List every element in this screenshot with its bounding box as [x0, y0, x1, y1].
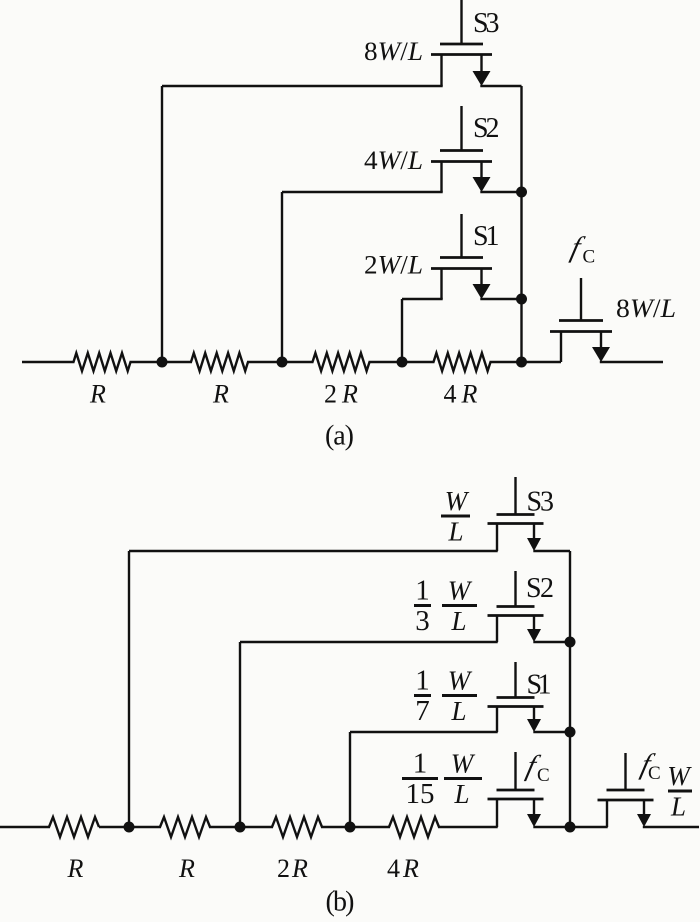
node S1-drain (a) [516, 294, 527, 305]
node S1-drain (b) [565, 727, 576, 738]
label fC (a) [568, 232, 595, 268]
wire S2 source (b) [240, 642, 498, 827]
svg-text:S2: S2 [473, 113, 500, 144]
resistor R1 (b) [49, 817, 99, 837]
label fC (b4) [523, 750, 549, 786]
wire S3 drain to bus (a) [480, 85, 521, 87]
svg-text:L: L [447, 517, 463, 547]
svg-text:1: 1 [413, 748, 428, 780]
svg-text:W: W [448, 576, 473, 606]
wire S1 drain to bus (a) [480, 298, 521, 300]
wire S2 drain to bus (a) [480, 191, 521, 193]
svg-text:C: C [537, 765, 550, 786]
svg-text:W: W [667, 761, 692, 791]
node ladder x570 (b) [565, 822, 576, 833]
wire S3 drain to bus (b) [533, 550, 570, 552]
svg-text:S3: S3 [527, 487, 555, 518]
label W/L (b S1) [442, 666, 477, 727]
wire S2 drain to bus (b) [533, 641, 570, 643]
svg-text:S2: S2 [526, 573, 554, 604]
svg-text:W: W [448, 666, 473, 696]
svg-text:L: L [453, 779, 469, 809]
svg-text:(a): (a) [325, 421, 354, 452]
node ladder x240 (b) [235, 822, 246, 833]
svg-text:2R: 2R [324, 380, 358, 409]
node ladder x521.5 (a) [516, 357, 527, 368]
transistor S3 (b) [488, 477, 544, 551]
svg-text:4R: 4R [387, 854, 419, 883]
label 1/15 (b T4) [402, 748, 438, 811]
node S2-drain (b) [565, 637, 576, 648]
transistor fC (a) [550, 278, 612, 362]
transistor S1 (b) [488, 662, 544, 732]
svg-text:8W/L: 8W/L [616, 294, 676, 323]
label W/L (b S3) [441, 486, 470, 547]
wire S1 source (b) [350, 732, 498, 827]
transistor S2 (b) [488, 571, 544, 642]
svg-text:2R: 2R [277, 854, 308, 883]
bus wire (b) [569, 551, 571, 827]
transistor S1 [431, 214, 492, 299]
output wire (b) [643, 826, 699, 828]
svg-text:(b): (b) [326, 887, 355, 918]
wire S3 source (a) [162, 86, 443, 362]
label W/L (b S2) [442, 576, 477, 637]
ladder wire (a) [22, 361, 561, 363]
wire S2 source (a) [282, 192, 443, 362]
svg-text:4R: 4R [444, 380, 478, 409]
svg-text:L: L [450, 696, 466, 726]
label 1/3 (b S2) [414, 575, 431, 638]
resistor R1 (a) [74, 353, 131, 371]
node ladder x282 (a) [277, 357, 288, 368]
svg-text:W: W [451, 749, 476, 779]
svg-text:3: 3 [415, 605, 430, 637]
resistor R2 (a) [191, 353, 248, 371]
svg-text:L: L [450, 606, 466, 636]
svg-text:S1: S1 [527, 670, 552, 701]
label W/L (b right) [667, 761, 692, 822]
svg-text:S1: S1 [473, 221, 500, 252]
svg-text:S3: S3 [473, 8, 500, 39]
label fC (b right) [638, 749, 661, 784]
transistor fC (b) [488, 752, 544, 827]
svg-text:8W/L: 8W/L [364, 37, 423, 66]
transistor S2 [431, 106, 492, 192]
svg-text:4W/L: 4W/L [364, 146, 423, 175]
svg-text:15: 15 [406, 778, 435, 810]
ladder wire (b) [0, 826, 608, 828]
svg-text:W: W [445, 486, 470, 516]
svg-text:1: 1 [415, 665, 430, 697]
resistor 2R (a) [313, 353, 370, 371]
svg-text:C: C [583, 247, 596, 268]
resistor 4R (a) [434, 353, 491, 371]
svg-text:R: R [178, 854, 195, 883]
svg-text:R: R [212, 380, 229, 409]
bus wire (a) [520, 86, 522, 362]
svg-text:1: 1 [415, 575, 430, 607]
wire S3 source (b) [129, 551, 498, 827]
resistor 2R (b) [272, 817, 322, 837]
node S2-drain (a) [516, 187, 527, 198]
node ladder x129 (b) [124, 822, 135, 833]
svg-text:L: L [670, 792, 686, 822]
label 1/7 (b S1) [414, 665, 431, 728]
svg-text:7: 7 [415, 695, 430, 727]
transistor S3 [431, 0, 492, 86]
transistor fC right (b) [598, 753, 654, 827]
node ladder x162 (a) [157, 357, 168, 368]
node ladder x402 (a) [397, 357, 408, 368]
svg-text:2W/L: 2W/L [364, 251, 423, 280]
wire S1 drain to bus (b) [533, 731, 570, 733]
resistor 4R (b) [389, 817, 439, 837]
svg-text:C: C [648, 763, 661, 784]
label W/L (b T4) [444, 749, 482, 810]
output wire (a) [600, 361, 663, 363]
node ladder x350 (b) [345, 822, 356, 833]
resistor R2 (b) [160, 817, 210, 837]
wire S1 source (a) [402, 299, 443, 362]
svg-text:R: R [67, 854, 84, 883]
svg-text:R: R [89, 380, 106, 409]
